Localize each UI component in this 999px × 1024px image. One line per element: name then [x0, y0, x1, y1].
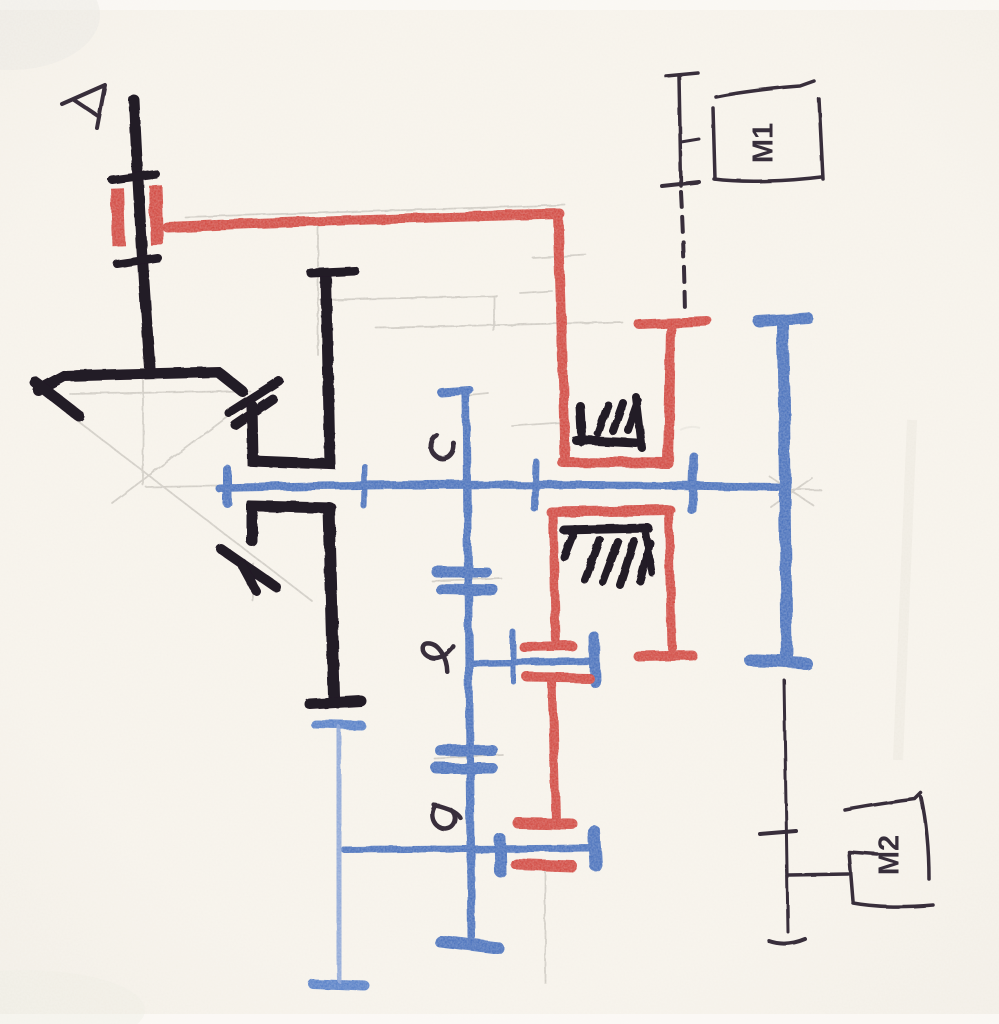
pencil vertical x253	[252, 563, 254, 601]
shaft a horizontal	[345, 848, 592, 850]
bevel mesh double line 2	[235, 399, 273, 425]
gear cap right shaft b	[594, 637, 595, 682]
red pencil elements	[117, 185, 707, 866]
shaft c horizontal main	[219, 485, 777, 488]
clutch half right on shaft A	[155, 185, 157, 245]
M1 dim mid tick	[681, 139, 699, 142]
frame hatch lower: left edge	[564, 529, 575, 557]
red gear below shaft a	[516, 864, 572, 866]
pencil construction lines	[70, 205, 821, 983]
fork top cap	[311, 271, 355, 273]
pencil horizontal y325	[376, 322, 622, 328]
M1 dimension line	[679, 77, 681, 186]
input shaft A line	[134, 100, 150, 368]
pencil tick at c shaft top	[468, 393, 488, 395]
bearing tick x535	[535, 462, 536, 509]
M2 tick	[760, 831, 796, 834]
red cap above shaft a	[518, 823, 572, 824]
pencil marks on red shaft	[533, 255, 586, 258]
output shaft bottom cap	[310, 701, 361, 704]
frame hatch lower: top bar	[564, 528, 648, 530]
svg-text:M2: M2	[874, 835, 906, 875]
pencil horizontal y298	[318, 296, 497, 300]
pencil vertical x494	[493, 296, 495, 331]
bevel mesh double line 1	[229, 381, 279, 413]
bearing cap left of shaft c	[223, 469, 232, 503]
pencil axis left of blue shaft	[146, 486, 219, 487]
left shaft top cap	[315, 724, 361, 725]
frame hatch upper: outline	[576, 406, 636, 443]
M2 axis line	[784, 680, 788, 932]
pencil vertical x143	[142, 377, 144, 485]
red link top horizontal	[167, 214, 560, 227]
label b	[418, 637, 456, 672]
red link right vertical up	[668, 330, 671, 462]
left shaft bottom cap	[313, 984, 365, 986]
output shaft black vertical	[329, 508, 334, 697]
blue pencil elements	[219, 318, 808, 986]
pencil under tall shaft caps	[756, 314, 810, 317]
pencil line between gears c	[432, 578, 501, 581]
pencil diagonal D1	[70, 415, 312, 601]
bottom cap vertical shaft	[440, 941, 498, 948]
M1 dim bottom tick	[662, 182, 699, 186]
label A	[62, 85, 105, 128]
pencil vertical x318	[317, 226, 319, 355]
pencil horizontal y424	[512, 422, 568, 426]
label a	[431, 805, 462, 831]
pencil line between gears a	[434, 755, 503, 758]
lower red frame right vertical	[669, 512, 672, 648]
lower red frame top horizontal	[551, 510, 670, 512]
clutch half left on shaft A	[117, 188, 119, 246]
M1 dashed axis	[681, 192, 685, 315]
gear cap x500 shaft a	[500, 839, 501, 872]
M2 connector	[789, 874, 848, 875]
red link bottom horizontal	[562, 462, 668, 463]
pencil guide above red line	[185, 205, 565, 217]
M2 bottom cap	[769, 939, 805, 944]
frame hatch lower: strokes	[585, 540, 650, 585]
bearing tick 1 shaft A	[112, 174, 156, 180]
cap at top of vertical shaft c	[441, 390, 469, 392]
frame hatch lower: right edge	[645, 528, 652, 573]
black marker structure	[35, 100, 652, 704]
M1 box	[716, 81, 814, 97]
tall shaft top cap	[758, 318, 808, 321]
pencil vertical x545 below	[544, 862, 546, 983]
shaft b horizontal	[472, 661, 592, 663]
red cap top of right vertical	[639, 321, 707, 324]
red gear below shaft b	[527, 677, 589, 678]
red cap right lower	[638, 655, 692, 656]
lower red frame left vertical	[553, 513, 556, 643]
bearing tick 2 shaft A	[117, 258, 158, 264]
bearing tick x693	[692, 457, 694, 510]
lower bevel diagonal	[221, 549, 276, 587]
gear a2	[436, 763, 492, 774]
gear cap x594 shaft a	[594, 831, 596, 866]
pencil axis right of blue shaft	[777, 489, 821, 490]
bevel carrier bar	[38, 372, 242, 391]
left output shaft light blue vertical	[337, 728, 341, 980]
upper fork U	[252, 276, 330, 464]
frame hatch upper: strokes	[598, 397, 642, 448]
gear c1	[437, 567, 486, 578]
M1 dim top tick	[666, 73, 698, 76]
tall right shaft vertical	[783, 325, 787, 658]
lower fork	[252, 506, 331, 541]
bearing tick x365	[364, 467, 365, 506]
red link vertical down	[558, 215, 565, 458]
gear a1	[441, 750, 492, 751]
bevel gear tooth left	[35, 382, 79, 416]
red gear above shaft b	[524, 646, 572, 647]
red shaft vertical lower	[552, 681, 556, 820]
tall shaft bottom cap	[750, 660, 806, 663]
gear c2	[441, 589, 493, 590]
label c	[428, 435, 455, 461]
pencil cross at shaft end	[770, 477, 813, 507]
M2 box	[845, 793, 921, 810]
pencil horizontal y392	[70, 391, 250, 394]
svg-text:M1: M1	[748, 123, 780, 163]
pen marks	[62, 73, 933, 944]
bearing tick shaft b	[510, 632, 516, 681]
lower bevel tick	[242, 565, 256, 591]
pencil diagonal D2	[112, 377, 281, 503]
shaft c vertical	[466, 394, 472, 937]
